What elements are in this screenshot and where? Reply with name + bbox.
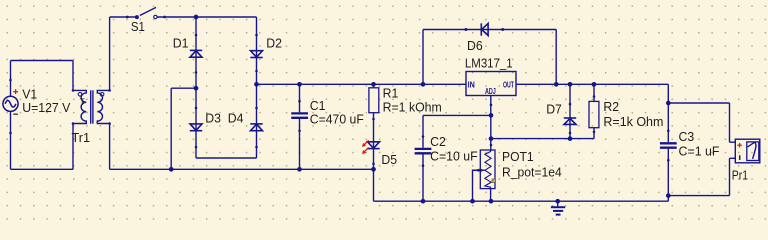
svg-text:C3: C3	[679, 129, 695, 144]
svg-text:OUT: OUT	[503, 80, 514, 89]
wire POT bottom stub	[490, 188, 492, 201]
wire ADJ riser	[490, 96, 492, 151]
wire D7 branch	[569, 84, 571, 138]
wire mid rail	[257, 83, 467, 85]
wire left riser top of V1	[10, 61, 12, 97]
probe Pr1	[735, 139, 760, 163]
svg-text:R1: R1	[383, 86, 399, 101]
svg-text:LM317_1: LM317_1	[465, 56, 513, 71]
svg-text:R_pot=1e4: R_pot=1e4	[502, 164, 562, 179]
wire C1 branch upper	[299, 84, 301, 112]
wire secondary bottom riser	[109, 124, 111, 170]
diode D6	[481, 23, 488, 35]
diode D1	[190, 50, 202, 57]
wire bottom rail	[374, 200, 669, 202]
LED D5	[367, 142, 379, 149]
voltage source V1	[3, 96, 18, 111]
resistor R1	[369, 88, 379, 113]
wire OUT rail	[516, 83, 668, 85]
svg-text:IN: IN	[468, 80, 475, 89]
diode D2	[250, 51, 262, 58]
wire ADJ rail	[491, 138, 594, 140]
wire below V1	[10, 111, 12, 169]
ground	[551, 201, 565, 214]
wire C2 branch lower	[422, 155, 424, 202]
wire top rail D1 to D2	[196, 16, 257, 18]
wire primary top riser	[72, 61, 74, 91]
svg-text:ADJ: ADJ	[485, 87, 496, 96]
potentiometer POT1	[473, 150, 495, 189]
wire D3 branch	[195, 88, 197, 158]
svg-text:D7: D7	[546, 102, 562, 117]
regulator LM317_1 box	[466, 72, 516, 96]
wire top rail to switch	[110, 16, 138, 18]
wire switch to D1 junction	[156, 16, 196, 18]
wire bridge mid tap	[171, 87, 196, 89]
wire C3 branch lower	[667, 149, 669, 201]
wire R2 bottom stub	[593, 128, 595, 139]
svg-text:D5: D5	[381, 152, 397, 167]
svg-text:D1: D1	[173, 36, 189, 51]
resistor R2	[589, 101, 599, 127]
wire D1 branch	[195, 17, 197, 88]
wire top of source loop	[11, 60, 74, 62]
wire probe minus riser	[729, 158, 731, 195]
wire bottom of source loop	[11, 168, 74, 170]
wire C3 branch upper	[667, 84, 669, 142]
V1 plus sign	[13, 89, 18, 94]
wire secondary top riser	[109, 17, 111, 90]
diode D3	[190, 124, 202, 131]
svg-text:C=10 uF: C=10 uF	[430, 149, 478, 164]
wire D6 left riser	[422, 30, 424, 85]
svg-text:C=1 uF: C=1 uF	[679, 144, 720, 159]
transformer Tr1	[73, 90, 110, 123]
wire probe plus riser	[729, 103, 731, 142]
svg-text:Tr1: Tr1	[72, 130, 91, 145]
wire C1 branch lower	[299, 119, 301, 169]
wire to probe plus	[668, 102, 729, 104]
diode D4	[250, 124, 262, 131]
wire R1 to D5 to bottom	[373, 113, 375, 202]
wire mid tap riser	[170, 88, 172, 169]
wire C2 branch upper	[422, 115, 424, 147]
probe minus mark	[739, 155, 741, 160]
wire POT wiper	[473, 170, 485, 201]
wire ADJ to C2	[423, 114, 491, 116]
pin end markers	[9, 16, 669, 172]
diode D7	[564, 118, 576, 124]
svg-text:R2: R2	[603, 99, 619, 114]
capacitor C3	[660, 143, 677, 147]
LED D5 arrows	[362, 140, 369, 154]
wire D6 right riser	[555, 30, 557, 85]
svg-text:C=470 uF: C=470 uF	[310, 111, 364, 126]
svg-text:T: T	[80, 96, 85, 106]
svg-text:R=1k Ohm: R=1k Ohm	[603, 114, 663, 129]
wire bridge bottom	[196, 157, 257, 159]
svg-text:D2: D2	[266, 36, 282, 51]
potentiometer direction mark	[492, 179, 495, 182]
svg-text:D4: D4	[228, 110, 244, 125]
svg-text:D6: D6	[467, 38, 483, 53]
V1 minus sign	[13, 113, 18, 115]
wire D4 branch lower	[256, 84, 258, 158]
wire D6 top	[423, 29, 556, 31]
svg-text:C2: C2	[430, 134, 446, 149]
capacitor C2	[415, 149, 432, 153]
probe plus sign	[737, 143, 741, 147]
wire probe minus stub	[730, 157, 736, 159]
wire probe return	[668, 195, 729, 197]
wire primary bottom riser	[72, 124, 74, 170]
wire R2 top stub	[593, 84, 595, 101]
svg-text:Pr1: Pr1	[732, 167, 748, 182]
svg-text:U=127 V: U=127 V	[22, 100, 71, 115]
svg-text:D3: D3	[205, 110, 221, 125]
wire R1 top stub	[373, 84, 375, 88]
wire lower rail left	[110, 168, 374, 170]
svg-text:POT1: POT1	[502, 149, 534, 164]
wire D2 branch upper	[256, 17, 258, 84]
switch S1	[135, 7, 157, 19]
capacitor C1	[291, 113, 308, 117]
wire probe plus stub	[730, 141, 736, 143]
svg-text:R=1 kOhm: R=1 kOhm	[383, 100, 442, 115]
svg-text:S1: S1	[131, 19, 145, 34]
